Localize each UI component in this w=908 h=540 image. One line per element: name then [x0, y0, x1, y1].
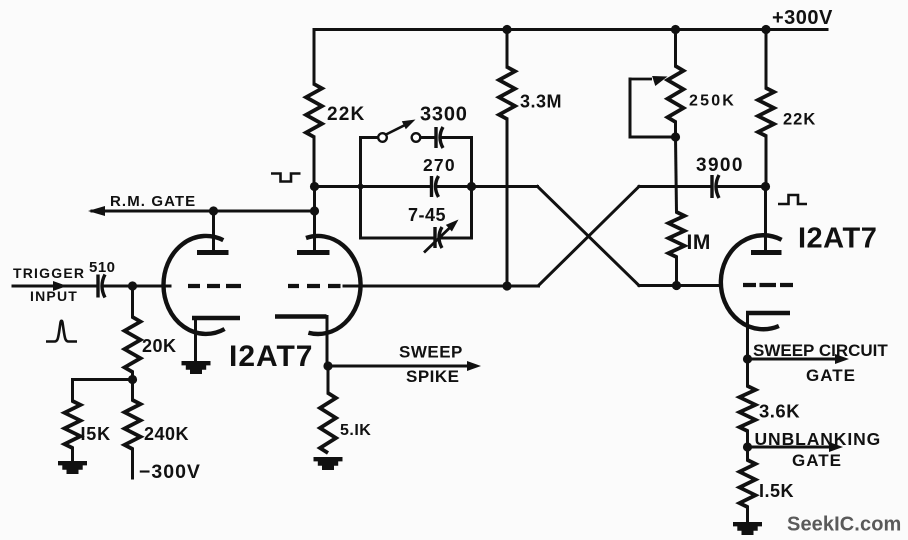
- label 22K right: [783, 111, 816, 129]
- wire bias node to 15K: [73, 380, 133, 402]
- arrowhead unblanking gate: [829, 442, 843, 452]
- wire 240K to -300V: [131, 449, 134, 478]
- label 3900: [696, 155, 744, 176]
- wire grid node to 20K: [131, 286, 134, 317]
- arrowhead trigger input: [53, 281, 67, 291]
- ground under 15K: [58, 461, 87, 474]
- wire X diagonal up (grid V2 to plate V3): [539, 187, 640, 286]
- svg-text:SWEEP CIRCUIT: SWEEP CIRCUIT: [753, 341, 888, 360]
- wire grid V2 out to X: [344, 285, 539, 288]
- label 5.1K: [340, 422, 371, 439]
- svg-text:GATE: GATE: [806, 366, 856, 385]
- potentiometer R3 250K: [668, 66, 684, 122]
- node rail-250K junction: [671, 25, 680, 34]
- node A plate-timing node: [310, 182, 319, 191]
- svg-text:240K: 240K: [144, 424, 189, 444]
- label 510: [89, 259, 116, 276]
- node plate V3 junction: [761, 182, 770, 191]
- label 3.6K: [759, 401, 800, 422]
- svg-text:GATE: GATE: [792, 451, 842, 470]
- label 3.3M: [520, 92, 562, 112]
- capacitor C4 3900: [712, 175, 719, 198]
- wiper arrow of 250K: [630, 76, 668, 86]
- svg-text:3900: 3900: [696, 155, 744, 176]
- label SWEEP CIRCUIT: [753, 341, 888, 360]
- triode V3 envelope: [721, 235, 782, 329]
- wire 1.5K to ground: [746, 507, 749, 522]
- node grid V3 - 1M junction: [672, 281, 681, 290]
- wire node to 1.5K: [746, 447, 749, 460]
- wire V2 plate lead: [313, 187, 316, 251]
- label 270: [423, 155, 456, 175]
- node rail-22K junction: [761, 25, 770, 34]
- triode V2 envelope: [306, 236, 361, 334]
- arrowhead sweep circuit gate: [835, 354, 849, 364]
- label 22K left: [327, 104, 365, 125]
- svg-text:+300V: +300V: [772, 7, 833, 29]
- cathode of V2: [275, 314, 327, 319]
- node rail-3.3M junction: [502, 25, 511, 34]
- label 1.5K: [759, 481, 794, 501]
- wire V1 plate lead: [212, 211, 215, 250]
- wire bias node to 240K: [131, 380, 134, 401]
- plate of V2: [297, 250, 330, 255]
- ground under 1.5K: [733, 522, 762, 535]
- trimmer arrow C3: [424, 220, 459, 253]
- node V3 cathode junction: [743, 354, 752, 363]
- wire box right edge: [470, 138, 473, 239]
- label R.M. GATE: [110, 193, 196, 210]
- svg-text:250K: 250K: [689, 93, 736, 110]
- cathode of V1: [192, 316, 240, 321]
- grid of V1 (dashed): [188, 284, 241, 288]
- waveform negative gate pulse: [271, 174, 301, 182]
- wire X to C4: [639, 185, 711, 188]
- wire sweep spike line: [328, 365, 474, 368]
- label 7-45: [408, 205, 446, 225]
- svg-text:5.IK: 5.IK: [340, 422, 371, 439]
- wire node to X upper corner: [472, 185, 538, 188]
- wire 250K bottom lead: [674, 122, 677, 137]
- wire 20K to bias node: [131, 372, 134, 380]
- resistor R10 3.6K: [740, 386, 756, 431]
- wire switch to C1: [421, 136, 435, 139]
- label 1M: [687, 231, 711, 254]
- waveform positive gate pulse: [778, 195, 807, 204]
- node 250K bottom junction: [671, 132, 680, 141]
- wire box bottom left: [361, 237, 434, 240]
- capacitor C1 3300: [436, 127, 443, 148]
- plate of V3: [751, 250, 782, 255]
- label SPIKE: [406, 367, 460, 386]
- svg-text:3.6K: 3.6K: [759, 401, 800, 422]
- wire 270 row left: [361, 185, 431, 188]
- capacitor C5 510: [98, 275, 105, 298]
- wire box left edge: [359, 138, 362, 239]
- triode V1 envelope: [163, 236, 224, 334]
- wire V3 plate lead: [764, 187, 767, 251]
- wire trigger input line: [13, 285, 97, 288]
- label GATE (unblanking): [792, 451, 842, 470]
- grid of V2 (dashed): [288, 284, 341, 288]
- node box-left middle junction: [358, 184, 364, 190]
- label UNBLANKING: [755, 429, 882, 449]
- wire C1 to box right: [443, 136, 472, 139]
- svg-text:22K: 22K: [783, 111, 816, 129]
- wire pot loop: [630, 79, 676, 137]
- svg-text:20K: 20K: [142, 336, 177, 356]
- wire grid row V3: [639, 284, 721, 287]
- svg-text:R.M. GATE: R.M. GATE: [110, 193, 196, 210]
- node V2 plate - gate line: [310, 206, 319, 215]
- wire node to 3.6K: [746, 359, 749, 386]
- wire rail to 3.3M: [506, 30, 509, 68]
- svg-text:TRIGGER: TRIGGER: [13, 265, 85, 281]
- wire unblanking gate line: [748, 446, 837, 449]
- cathode of V3: [746, 311, 790, 316]
- label 20K: [142, 336, 177, 356]
- svg-text:510: 510: [89, 259, 116, 276]
- wire 1M bottom: [675, 257, 678, 286]
- svg-text:UNBLANKING: UNBLANKING: [755, 429, 882, 449]
- label INPUT: [30, 288, 78, 304]
- arrowhead sweep spike: [467, 361, 481, 371]
- svg-text:−300V: −300V: [139, 461, 201, 483]
- waveform trigger spike: [46, 321, 77, 342]
- resistor R1 22K (left): [306, 84, 322, 137]
- svg-text:270: 270: [423, 155, 456, 175]
- svg-text:SPIKE: SPIKE: [406, 367, 460, 386]
- resistor R2 3.3M: [499, 67, 515, 119]
- wire X diagonal down (plate V1 to grid V3): [538, 187, 640, 286]
- label 3300: [420, 104, 468, 126]
- resistor R9 5.1K: [320, 393, 336, 453]
- label 15K: [81, 424, 111, 444]
- label GATE (sweep): [806, 366, 856, 385]
- label -300V: [139, 461, 201, 483]
- wire box top-left to switch: [361, 136, 379, 139]
- resistor R8 240K: [125, 400, 141, 449]
- switch S1 (range switch): [378, 120, 420, 142]
- resistor R5 22K (right): [758, 88, 774, 136]
- resistor R7 15K: [65, 401, 81, 448]
- label 250K: [689, 93, 736, 110]
- wire box bottom right: [442, 237, 472, 240]
- resistor R6 20K: [125, 317, 141, 372]
- wire node A to box: [315, 185, 361, 188]
- svg-text:7-45: 7-45: [408, 205, 446, 225]
- label SeekIC.com watermark: [787, 514, 901, 536]
- wire C5 to grid node: [105, 285, 171, 288]
- wire V2 cathode lead: [326, 317, 329, 367]
- capacitor C2 270: [432, 176, 439, 197]
- wire 270 row right: [439, 185, 472, 188]
- wire rail to R1 top: [313, 30, 316, 85]
- label 240K: [144, 424, 189, 444]
- node V1 plate - gate line: [209, 206, 218, 215]
- svg-text:22K: 22K: [327, 104, 365, 125]
- svg-text:I2AT7: I2AT7: [229, 340, 313, 373]
- wire rail to 22K right: [765, 30, 768, 89]
- wire node to 5.1K: [327, 366, 330, 393]
- label 12AT7 second tube: [798, 223, 877, 255]
- label 12AT7 first tube: [229, 340, 313, 373]
- label +300V: [772, 7, 833, 29]
- svg-text:I5K: I5K: [81, 424, 111, 444]
- wire 22K right bottom: [765, 136, 768, 187]
- grid of V3 (dashed): [743, 283, 793, 287]
- ground under V1 cathode: [182, 361, 211, 374]
- svg-text:SeekIC.com: SeekIC.com: [787, 514, 901, 536]
- svg-text:3.3M: 3.3M: [520, 92, 562, 112]
- wire C4 to plate node: [719, 185, 766, 188]
- node grid V2 - 3.3M junction: [502, 281, 511, 290]
- wire R.M. GATE line: [92, 210, 315, 213]
- wire rail to 250K: [674, 30, 677, 67]
- label TRIGGER: [13, 265, 85, 281]
- wire 3.6K to unblanking node: [746, 431, 749, 447]
- node V2 cathode junction: [323, 361, 332, 370]
- resistor R11 1.5K: [740, 460, 756, 507]
- ground under 5.1K: [314, 457, 343, 470]
- arrowhead R.M. GATE: [88, 206, 105, 216]
- svg-text:3300: 3300: [420, 104, 468, 126]
- wire R1 bottom to node A: [313, 137, 316, 187]
- node box-right middle junction: [467, 182, 476, 191]
- node unblanking junction: [743, 442, 752, 451]
- wire +300V supply rail: [314, 28, 827, 31]
- wire sweep circuit gate line: [748, 358, 843, 361]
- node bias divider junction: [128, 375, 137, 384]
- wire 15K to ground: [71, 448, 74, 461]
- svg-text:I.5K: I.5K: [759, 481, 794, 501]
- plate of V1: [197, 250, 229, 255]
- svg-text:SWEEP: SWEEP: [399, 343, 463, 362]
- label SWEEP: [399, 343, 463, 362]
- wire 250K to 1M: [676, 137, 677, 212]
- wire V1 cathode lead: [194, 318, 197, 361]
- wire V3 cathode lead: [746, 313, 749, 359]
- svg-text:I2AT7: I2AT7: [798, 223, 877, 255]
- capacitor C3 7-45 trimmer: [435, 227, 442, 248]
- resistor R4 1M: [669, 212, 685, 257]
- node trigger-grid junction: [128, 281, 137, 290]
- svg-text:IM: IM: [687, 231, 711, 254]
- wire 3.3M to grid row: [506, 119, 509, 286]
